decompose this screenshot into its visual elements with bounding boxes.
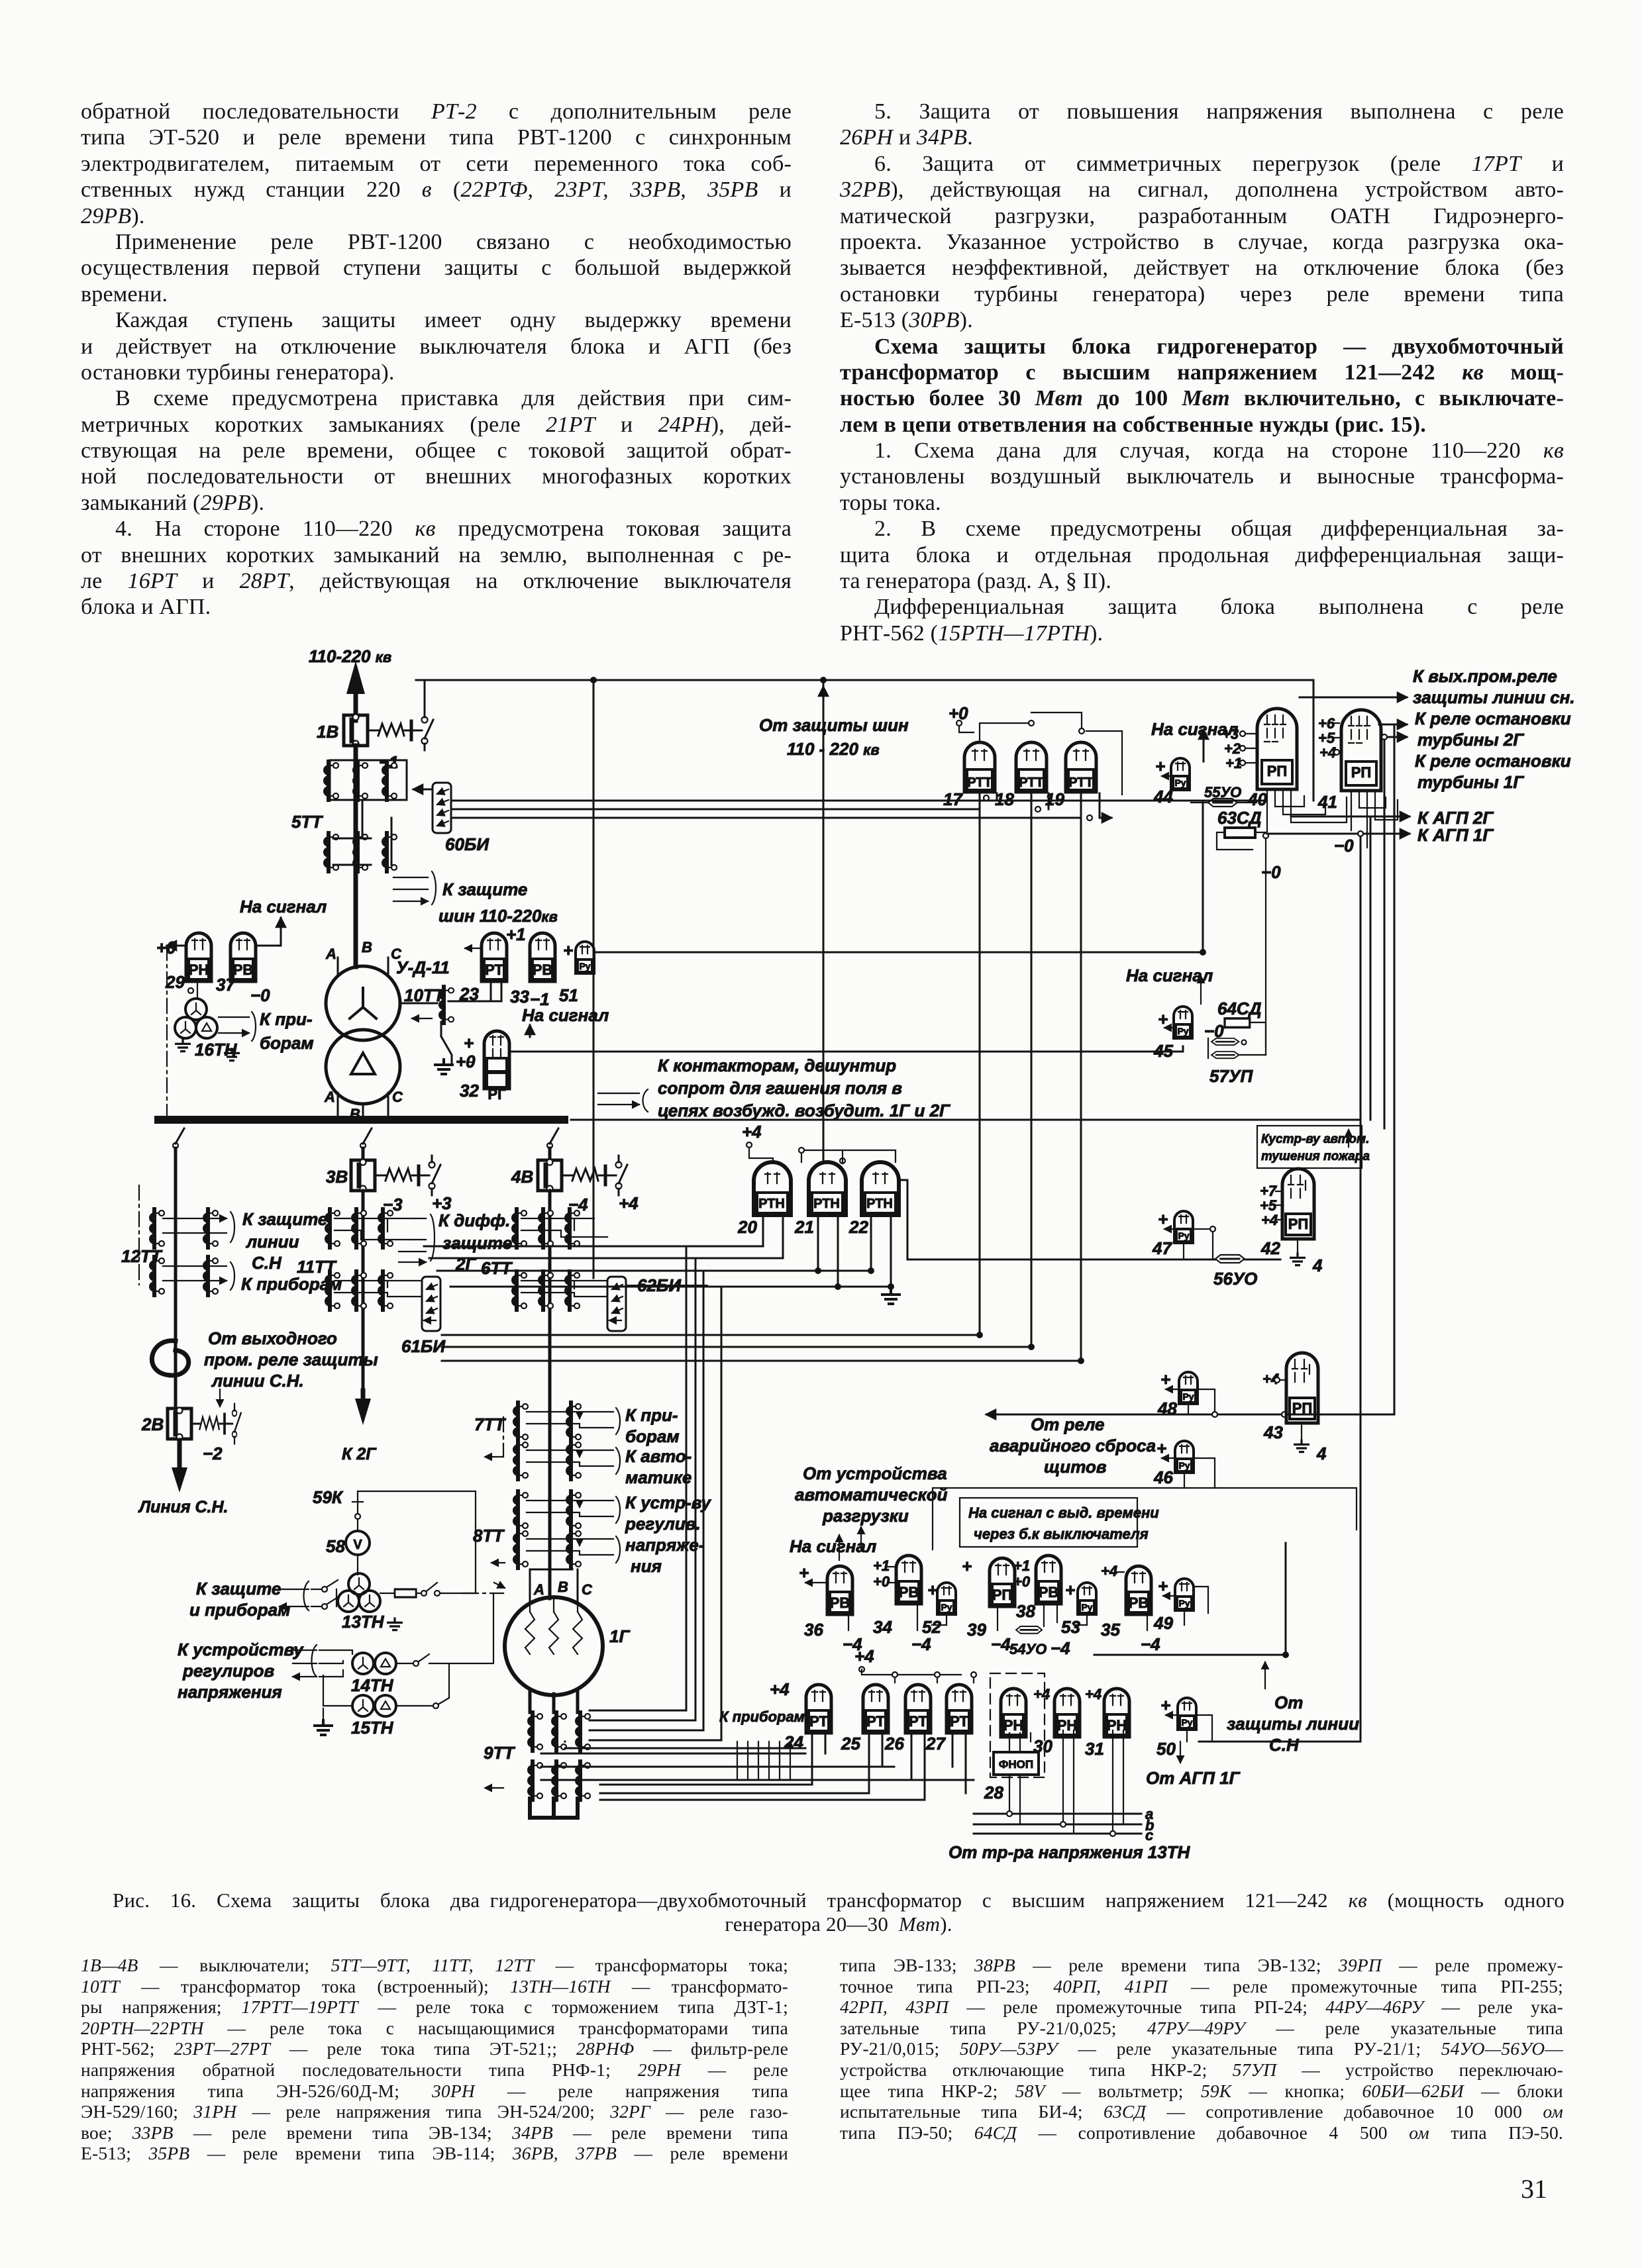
svg-text:На сигнал: На сигнал: [522, 1005, 609, 1025]
relay RT 23: [482, 933, 507, 981]
svg-text:1В: 1В: [317, 722, 338, 742]
relay RP 40: [1257, 709, 1297, 789]
svg-text:44: 44: [1153, 787, 1173, 807]
relay Ru 53: [1078, 1583, 1096, 1614]
svg-text:На сигнал: На сигнал: [790, 1536, 876, 1556]
svg-text:58: 58: [326, 1536, 345, 1556]
svg-text:А: А: [533, 1581, 544, 1598]
svg-text:цепях возбужд. возбудит. 1Г: цепях возбужд. возбудит. 1Г и 2Г: [658, 1101, 950, 1120]
svg-text:110-220 кв: 110-220 кв: [309, 646, 391, 666]
svg-text:РГ: РГ: [487, 1086, 506, 1103]
svg-text:С: С: [391, 946, 402, 962]
box na signal s vyd vremeni: [933, 1488, 1357, 1550]
svg-text:+: +: [1156, 1438, 1166, 1458]
wire HV feeder to transformer: [354, 746, 358, 967]
svg-text:Ру: Ру: [1182, 1391, 1194, 1402]
svg-text:Ру: Ру: [1178, 1598, 1190, 1608]
svg-text:К защите: К защите: [196, 1579, 281, 1599]
trip contacts of 1V, coil -1: [369, 711, 433, 750]
relay RN 30: [1054, 1689, 1080, 1737]
wire top signal line y1027: [416, 679, 1313, 681]
svg-text:разгрузки: разгрузки: [822, 1506, 909, 1526]
wire na signal from 37: [258, 945, 281, 947]
node to bus protection arrows: [393, 877, 428, 901]
svg-text:РТТ: РТТ: [1019, 775, 1044, 790]
relay Ru 47: [1174, 1211, 1193, 1243]
CT 11TT group row1: [325, 1209, 340, 1248]
wire 13TN right side: [380, 1593, 395, 1594]
svg-text:22: 22: [848, 1217, 868, 1237]
svg-text:Кустр-ву автом.: Кустр-ву автом.: [1261, 1132, 1369, 1146]
svg-text:+4: +4: [742, 1122, 762, 1142]
svg-text:15ТН: 15ТН: [351, 1718, 394, 1738]
svg-text:РТ: РТ: [909, 1713, 927, 1730]
svg-text:33: 33: [510, 987, 529, 1007]
relay RTN 21: [809, 1162, 846, 1215]
svg-text:38: 38: [1016, 1601, 1035, 1621]
breaker 3V: [351, 1159, 375, 1192]
svg-text:матике: матике: [625, 1467, 692, 1487]
CT 9TT row2: [527, 1761, 542, 1800]
relay RN 31: [1104, 1689, 1129, 1737]
relay Ru 48: [1179, 1372, 1198, 1404]
svg-text:+0: +0: [873, 1573, 890, 1590]
svg-text:РП: РП: [1288, 1216, 1309, 1232]
breaker 4V: [538, 1159, 562, 1192]
wire 60BI outputs: [452, 800, 1263, 802]
svg-text:В: В: [362, 939, 372, 956]
svg-text:1Г: 1Г: [609, 1626, 630, 1646]
relay Ru 46: [1175, 1441, 1194, 1473]
wire long drops from RTT to lower rails: [980, 809, 1081, 1361]
generator 1G: [505, 1597, 603, 1695]
svg-text:+1: +1: [1013, 1557, 1030, 1574]
transformer CT 5TT row1: [330, 760, 407, 800]
relay RTT 19: [1066, 742, 1096, 792]
relay RP 43: [1286, 1353, 1318, 1423]
svg-text:7ТТ: 7ТТ: [474, 1414, 506, 1434]
wire 51 to long rail y1438: [595, 952, 1203, 954]
svg-text:К АГП 1Г: К АГП 1Г: [1417, 825, 1494, 845]
svg-text:С: С: [582, 1581, 593, 1598]
svg-text:Линия С.Н.: Линия С.Н.: [138, 1498, 229, 1516]
svg-text:+: +: [1160, 1369, 1170, 1389]
wire 10TT to relays: [441, 1022, 452, 1063]
svg-text:На сигнал: На сигнал: [240, 897, 327, 916]
svg-text:РП: РП: [1292, 1400, 1313, 1416]
svg-text:+: +: [962, 1556, 972, 1576]
svg-text:9ТТ: 9ТТ: [484, 1743, 515, 1763]
svg-text:−4: −4: [1141, 1634, 1160, 1654]
wire vertical run x2090: [1384, 740, 1386, 1128]
svg-text:+: +: [927, 1580, 937, 1600]
wire vertical bundle x1036-1089 down to 9TT rails: [686, 1246, 721, 1740]
CT 9TT row1: [527, 1712, 542, 1751]
relay RN 29: [186, 933, 211, 981]
svg-text:Ру: Ру: [1178, 1460, 1190, 1471]
svg-text:+4: +4: [1033, 1686, 1050, 1702]
svg-text:25: 25: [841, 1734, 860, 1753]
svg-text:57УП: 57УП: [1209, 1066, 1254, 1086]
wire RG32 rail y1588: [511, 1046, 1183, 1052]
svg-text:РТН: РТН: [866, 1197, 893, 1211]
svg-text:64СД: 64СД: [1217, 999, 1262, 1018]
svg-text:Ру: Ру: [579, 961, 590, 971]
svg-text:защиты линии сн.: защиты линии сн.: [1413, 687, 1575, 707]
svg-text:К дифф.: К дифф.: [438, 1210, 510, 1230]
svg-text:41: 41: [1317, 792, 1337, 812]
svg-text:защиты линии: защиты линии: [1227, 1714, 1359, 1734]
CT 6TT row2: [511, 1271, 527, 1310]
svg-text:РТ: РТ: [866, 1713, 885, 1730]
svg-text:59К: 59К: [313, 1487, 344, 1507]
svg-text:13ТН: 13ТН: [342, 1612, 385, 1632]
wire junction 16TN feeder: [468, 1061, 473, 1063]
test block 61BI: [422, 1277, 440, 1331]
svg-text:5ТТ: 5ТТ: [291, 812, 323, 832]
node junction from bus protection: [820, 677, 827, 683]
svg-text:+: +: [799, 1563, 809, 1583]
svg-text:+1: +1: [873, 1557, 890, 1574]
svg-text:РВ: РВ: [1039, 1584, 1059, 1601]
device UP 57: [1211, 1038, 1239, 1045]
svg-text:31: 31: [1085, 1739, 1104, 1759]
svg-text:−4: −4: [991, 1634, 1011, 1654]
wire RN relays to abc bus: [1009, 1730, 1123, 1834]
svg-text:46: 46: [1153, 1467, 1173, 1487]
svg-text:29: 29: [165, 972, 185, 992]
wire 9TT and generator secondary rails to right: [590, 1710, 721, 1740]
svg-text:+0: +0: [1013, 1573, 1031, 1590]
svg-text:Ру: Ру: [1081, 1602, 1092, 1612]
wire RP40 pins: [1267, 789, 1347, 832]
svg-text:ния: ния: [631, 1556, 662, 1576]
svg-text:20: 20: [737, 1217, 757, 1237]
svg-text:РП: РП: [1267, 763, 1288, 779]
svg-text:−0: −0: [250, 985, 270, 1005]
wire RTN22 to 56UO rail: [901, 1180, 1280, 1259]
svg-text:К защите: К защите: [442, 879, 527, 899]
svg-text:−2: −2: [203, 1444, 223, 1463]
svg-text:С: С: [392, 1089, 403, 1105]
svg-text:РТН: РТН: [813, 1197, 840, 1211]
svg-text:От реле: От реле: [1031, 1414, 1105, 1434]
svg-text:С.Н: С.Н: [1269, 1735, 1300, 1755]
svg-text:У-Д-11: У-Д-11: [396, 958, 450, 977]
svg-text:регулив.: регулив.: [625, 1514, 701, 1534]
svg-text:49: 49: [1153, 1613, 1173, 1633]
relay Ru 52: [937, 1583, 956, 1614]
svg-text:+4: +4: [619, 1193, 639, 1213]
relay RV 37: [231, 933, 256, 981]
relay RT 27: [947, 1685, 972, 1733]
svg-text:34: 34: [873, 1617, 892, 1637]
wire 14TN/15TN right: [396, 1593, 493, 1706]
wire vertical run x2105: [1394, 724, 1396, 1414]
svg-text:К контакторам, дешунтир: К контакторам, дешунтир: [658, 1056, 896, 1075]
wire 2V feeder: disconnector: [173, 1128, 184, 1148]
svg-text:РТТ: РТТ: [1068, 775, 1094, 790]
node phase leads A B C top: [338, 958, 388, 975]
transformer 14TN: [352, 1653, 374, 1674]
svg-text:К устройству: К устройству: [178, 1640, 304, 1659]
svg-text:56УО: 56УО: [1213, 1269, 1257, 1289]
svg-text:+: +: [464, 1033, 474, 1053]
svg-text:К устр-ву: К устр-ву: [625, 1493, 711, 1512]
CT 10TT embedded: [400, 1003, 437, 1005]
svg-text:40: 40: [1247, 789, 1267, 809]
svg-text:37: 37: [216, 975, 236, 995]
relay RV 35: [1126, 1566, 1151, 1614]
svg-text:турбины 1Г: турбины 1Г: [1417, 772, 1524, 792]
device UO 54: [1016, 1626, 1042, 1634]
transformer 13TN: [348, 1573, 370, 1595]
svg-text:От: От: [1274, 1693, 1303, 1712]
svg-text:В: В: [558, 1579, 568, 1595]
svg-text:К защите: К защите: [242, 1209, 327, 1229]
voltage transformer 16TN: [185, 999, 207, 1020]
svg-text:К приборам: К приборам: [719, 1708, 805, 1725]
relay RTN 22: [862, 1162, 899, 1215]
svg-text:54УО: 54УО: [1009, 1641, 1047, 1657]
svg-text:РН: РН: [189, 961, 209, 978]
svg-text:К реле остановки: К реле остановки: [1415, 709, 1571, 728]
voltmeter 58: [346, 1531, 370, 1555]
svg-text:+4: +4: [1101, 1563, 1117, 1579]
svg-text:К авто-: К авто-: [625, 1446, 692, 1466]
CT 7TT group: [513, 1403, 528, 1441]
wire 4V feeder disconnector: [547, 1128, 558, 1148]
node phase leads A B C bottom: [338, 1093, 388, 1117]
svg-text:пром. реле защиты: пром. реле защиты: [204, 1350, 378, 1369]
relay Ru 49: [1175, 1579, 1194, 1610]
wire RTN pins down: [763, 1215, 891, 1287]
svg-text:От тр-ра напряжения 13ТН: От тр-ра напряжения 13ТН: [949, 1842, 1191, 1862]
svg-text:+4: +4: [770, 1679, 790, 1699]
svg-text:РВ: РВ: [899, 1584, 919, 1601]
wire K 2G outgoing: [361, 1391, 366, 1403]
svg-text:4: 4: [1312, 1256, 1323, 1275]
svg-text:3В: 3В: [326, 1167, 348, 1187]
svg-text:32: 32: [460, 1081, 479, 1101]
svg-text:РТ: РТ: [485, 961, 503, 978]
svg-text:тушения пожара: тушения пожара: [1261, 1150, 1370, 1163]
wire RTT pins to 60BI rails: [980, 793, 1100, 818]
svg-text:11ТТ: 11ТТ: [297, 1257, 337, 1277]
wire abc bus: [974, 1814, 1141, 1834]
svg-text:А: А: [324, 1089, 335, 1105]
wire outputs to right annunciation: [1300, 697, 1407, 699]
svg-text:турбины 2Г: турбины 2Г: [1417, 730, 1524, 750]
node phase leads into generator: [530, 1569, 578, 1601]
svg-text:+: +: [563, 940, 573, 960]
svg-text:61БИ: 61БИ: [401, 1336, 446, 1356]
CT 8TT group: [513, 1491, 528, 1530]
svg-text:РВ: РВ: [830, 1595, 850, 1611]
svg-text:РТН: РТН: [758, 1197, 785, 1211]
svg-text:21: 21: [794, 1217, 814, 1237]
svg-text:На сигнал: На сигнал: [1126, 965, 1213, 985]
svg-text:РП: РП: [1351, 764, 1372, 781]
test block 62BI: [607, 1277, 626, 1331]
svg-text:РП: РП: [992, 1587, 1013, 1603]
svg-text:сопрот для гашения поля в: сопрот для гашения поля в: [658, 1078, 902, 1098]
svg-text:+4: +4: [854, 1646, 874, 1666]
relay RP 41: [1341, 710, 1381, 791]
relay RT 25: [863, 1685, 888, 1733]
svg-text:4В: 4В: [511, 1167, 533, 1187]
svg-text:регулиров: регулиров: [182, 1661, 274, 1681]
svg-text:К 2Г: К 2Г: [342, 1445, 377, 1463]
svg-text:Ру: Ру: [941, 1602, 952, 1612]
svg-text:c: c: [1145, 1827, 1153, 1844]
svg-text:Ру: Ру: [1178, 1230, 1189, 1241]
svg-text:23: 23: [459, 984, 479, 1004]
svg-text:На сигнал с выд. времени: На сигнал с выд. времени: [968, 1504, 1159, 1521]
svg-text:+: +: [1065, 1580, 1075, 1600]
svg-text:Ру: Ру: [1177, 1026, 1188, 1036]
svg-text:От устройства: От устройства: [803, 1463, 947, 1483]
svg-text:напряжения: напряжения: [178, 1682, 282, 1702]
wire HV incoming arrow: [354, 689, 358, 720]
wire vertical run x2054 to node at y2630: [1199, 836, 1360, 1742]
relay RP 39: [990, 1558, 1015, 1606]
relay RV 34: [896, 1555, 921, 1604]
svg-text:ФНОП: ФНОП: [999, 1758, 1033, 1771]
svg-text:39: 39: [967, 1620, 986, 1640]
svg-text:6ТТ: 6ТТ: [481, 1258, 513, 1278]
CT 12TT group: [149, 1209, 164, 1248]
svg-text:−0: −0: [1334, 836, 1354, 856]
svg-text:2В: 2В: [141, 1414, 164, 1434]
wire drop from top line to 62BI: [593, 680, 595, 1278]
wire rail y2136 with left arrow: [986, 1414, 1394, 1416]
svg-text:60БИ: 60БИ: [445, 834, 489, 854]
svg-text:43: 43: [1263, 1422, 1283, 1442]
wire misc connections bottom row: [932, 1587, 1208, 1625]
generator windings: [525, 1612, 535, 1654]
filter RNF 28 dashed box: [990, 1673, 1045, 1777]
svg-text:8ТТ: 8ТТ: [473, 1526, 505, 1546]
svg-text:К реле остановки: К реле остановки: [1415, 751, 1571, 771]
svg-text:28: 28: [984, 1783, 1003, 1802]
svg-text:110 - 220 кв: 110 - 220 кв: [787, 739, 880, 759]
relay Ru 50: [1178, 1698, 1196, 1730]
relay RP 42: [1282, 1169, 1314, 1239]
relay Ru 51: [576, 942, 594, 973]
svg-text:14ТН: 14ТН: [351, 1675, 394, 1695]
wire drop from top line to 63SD: [1313, 680, 1315, 801]
svg-text:+: +: [1160, 1695, 1170, 1715]
svg-text:Ру: Ру: [1181, 1717, 1192, 1728]
CT 11TT row2: [325, 1271, 340, 1310]
svg-text:и приборам: и приборам: [189, 1600, 290, 1620]
svg-text:35: 35: [1101, 1620, 1120, 1640]
wire rails from 61BI/62BI to the right: [442, 1335, 1081, 1361]
svg-text:автоматической: автоматической: [795, 1485, 948, 1504]
wire 5TT secondary leads: [333, 801, 391, 865]
transformer 15TN: [352, 1695, 374, 1716]
svg-text:А: А: [325, 946, 336, 962]
wire 9TT bottom star: [530, 1799, 578, 1818]
svg-text:РВ: РВ: [233, 961, 254, 978]
svg-text:От защиты шин: От защиты шин: [759, 715, 909, 735]
wire 3V feeder disconnector: [360, 1128, 372, 1148]
svg-text:линии: линии: [245, 1232, 299, 1252]
svg-text:РН: РН: [1003, 1717, 1024, 1734]
svg-text:линии С.Н.: линии С.Н.: [211, 1371, 304, 1391]
svg-text:защите: защите: [442, 1233, 512, 1253]
box K ustr-vu avtom tusheniya pozhara: [1257, 1126, 1362, 1168]
wire generator to 9TT: [530, 1690, 578, 1712]
wire dash-dot left feeder: [166, 946, 168, 1116]
svg-text:30: 30: [1033, 1736, 1052, 1756]
relay RT 26: [905, 1685, 931, 1733]
svg-text:+: +: [1158, 1576, 1168, 1596]
svg-text:47: 47: [1152, 1238, 1172, 1258]
svg-text:+: +: [1155, 756, 1165, 776]
svg-text:+1: +1: [506, 924, 526, 944]
svg-text:+4: +4: [1085, 1686, 1102, 1702]
svg-text:V: V: [353, 1538, 362, 1552]
relay Ru 45: [1174, 1007, 1192, 1038]
svg-text:борам: борам: [260, 1033, 314, 1053]
svg-text:12ТТ: 12ТТ: [121, 1246, 163, 1266]
transformer CT 5TT row2: [323, 833, 338, 871]
svg-text:К при-: К при-: [260, 1009, 313, 1029]
svg-text:52: 52: [922, 1617, 941, 1637]
wire drop from bus-protection junction to RTN21: [823, 683, 825, 1160]
transformer T (Y-D-11), two windings: [326, 966, 400, 1040]
relay RT 24: [806, 1685, 831, 1733]
wire drops from RT relays to 9TT rails: [600, 1733, 966, 1800]
svg-text:Ру: Ру: [1174, 777, 1186, 788]
relay RV 38: [1036, 1555, 1061, 1604]
svg-text:аварийного сброса: аварийного сброса: [990, 1436, 1156, 1455]
svg-text:−4: −4: [911, 1634, 931, 1654]
node field-quenching annotation: [598, 1093, 639, 1105]
wire line SN outgoing: [178, 1440, 182, 1471]
svg-text:50: 50: [1156, 1739, 1176, 1759]
node K diff zashite 2G: [334, 1218, 414, 1240]
svg-text:4: 4: [1316, 1444, 1327, 1463]
svg-text:РВ: РВ: [1129, 1595, 1149, 1611]
svg-text:К при-: К при-: [625, 1405, 678, 1425]
relay RTN 20: [754, 1162, 791, 1215]
wire rail y1691: [571, 1119, 1360, 1121]
svg-text:РТ: РТ: [809, 1713, 828, 1730]
svg-text:шин 110-220кв: шин 110-220кв: [438, 906, 558, 926]
wire output loop symbol: [152, 1341, 188, 1375]
device UO 56: [1215, 1255, 1245, 1263]
svg-text:К вых.пром.реле: К вых.пром.реле: [1413, 666, 1557, 686]
wire from aux 1V up to bus-protection line: [424, 680, 426, 711]
CT 6TT group row1: [511, 1209, 527, 1248]
relay RTT 18: [1016, 742, 1047, 792]
svg-text:РТТ: РТТ: [967, 775, 992, 790]
svg-text:От АГП 1Г: От АГП 1Г: [1146, 1768, 1241, 1788]
svg-text:26: 26: [884, 1734, 904, 1753]
svg-text:борам: борам: [625, 1426, 680, 1446]
svg-text:53: 53: [1061, 1617, 1080, 1637]
svg-text:щитов: щитов: [1044, 1457, 1107, 1477]
wire K AGP outputs: [1291, 816, 1410, 818]
test block 60BI: [433, 783, 451, 833]
wire thick jumper 62BI to ground rail: [627, 1285, 707, 1287]
svg-text:С.Н: С.Н: [252, 1253, 282, 1273]
breaker 2V: [168, 1408, 191, 1440]
svg-text:+: +: [1158, 1009, 1168, 1029]
